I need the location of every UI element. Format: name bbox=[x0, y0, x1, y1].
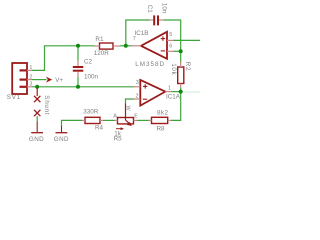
svg-text:R4: R4 bbox=[95, 124, 104, 131]
shunt X mark 2 bbox=[34, 110, 40, 116]
wire R8 left to pot E bbox=[137, 119, 149, 121]
svg-text:1: 1 bbox=[29, 65, 32, 71]
resistor R1 bbox=[95, 43, 121, 49]
capacitor C1 bbox=[150, 15, 164, 25]
wire IC1A output faint to right edge bbox=[183, 91, 200, 93]
junction dot IC1B pin6 node bbox=[179, 49, 183, 53]
resistor R2 bbox=[178, 62, 184, 88]
svg-text:IC1A: IC1A bbox=[166, 93, 181, 100]
resistor R8 bbox=[149, 117, 171, 123]
junction dot shunt tap bbox=[35, 85, 39, 89]
wire V+ branch bbox=[32, 79, 47, 81]
junction dot R1 right feedback bbox=[124, 44, 128, 48]
ground GND2 bbox=[56, 126, 68, 133]
wire IC1B pin6 to junction bbox=[174, 50, 181, 52]
wire R1 right to IC1B output junction bbox=[120, 45, 132, 47]
svg-text:1: 1 bbox=[168, 85, 171, 91]
junction dot C2 top bbox=[76, 44, 80, 48]
svg-text:A: A bbox=[113, 113, 117, 119]
svg-text:Shunt: Shunt bbox=[43, 95, 50, 115]
svg-text:W: W bbox=[125, 106, 131, 112]
shunt jumper red lead bbox=[36, 88, 38, 97]
trimmer R5 bbox=[115, 104, 138, 131]
svg-text:10k: 10k bbox=[170, 63, 177, 75]
wire R2 top segment bbox=[180, 51, 182, 62]
svg-text:R1: R1 bbox=[95, 36, 104, 43]
op-amp IC1A bbox=[134, 80, 172, 106]
wire R4 left to GND2 bbox=[62, 120, 83, 126]
junction dot C2 bottom bbox=[76, 85, 80, 89]
svg-text:3: 3 bbox=[136, 80, 139, 86]
svg-text:2: 2 bbox=[29, 74, 32, 80]
wire junction down to R8 bbox=[171, 92, 181, 121]
svg-text:SV1: SV1 bbox=[7, 94, 21, 101]
op-amp IC1B bbox=[132, 32, 174, 59]
svg-text:C1: C1 bbox=[146, 5, 153, 14]
svg-text:7: 7 bbox=[133, 36, 136, 42]
junction dot IC1A output node bbox=[179, 90, 183, 94]
wire C2 top green bbox=[77, 46, 79, 61]
svg-text:10n: 10n bbox=[161, 3, 168, 14]
svg-text:330R: 330R bbox=[83, 108, 99, 115]
wire pot A to R4 bbox=[103, 119, 115, 121]
wire IC1A output to junction bbox=[172, 91, 181, 93]
svg-text:E: E bbox=[134, 113, 138, 119]
svg-text:C2: C2 bbox=[84, 59, 93, 66]
connector SV1 bbox=[12, 63, 32, 94]
capacitor C2 bbox=[73, 61, 84, 78]
svg-text:2: 2 bbox=[136, 93, 139, 99]
svg-text:100n: 100n bbox=[84, 74, 99, 81]
svg-text:120R: 120R bbox=[94, 50, 110, 57]
wire net N1 pin1 to R1 bbox=[32, 46, 95, 71]
svg-text:GND: GND bbox=[29, 136, 44, 143]
shunt X mark 1 bbox=[34, 96, 40, 102]
svg-text:R8: R8 bbox=[157, 126, 166, 133]
wire C2 bottom green bbox=[77, 77, 79, 87]
svg-text:6: 6 bbox=[169, 44, 172, 50]
svg-text:LM358D: LM358D bbox=[135, 61, 165, 68]
wire feedback loop top with C1 bbox=[126, 20, 150, 46]
svg-text:V+: V+ bbox=[55, 77, 63, 84]
svg-text:GND: GND bbox=[54, 136, 69, 143]
wire R2 bottom segment bbox=[180, 88, 182, 92]
svg-text:3: 3 bbox=[29, 82, 32, 88]
wire shunt upper green bbox=[36, 116, 38, 121]
resistor R4 bbox=[82, 117, 103, 123]
svg-text:R5: R5 bbox=[114, 135, 123, 142]
wire net N3 pin3 to IC1A plus input bbox=[32, 86, 134, 88]
ground GND1 bbox=[31, 122, 43, 133]
supply arrow V+ bbox=[46, 77, 52, 83]
svg-text:R2: R2 bbox=[184, 62, 191, 71]
svg-text:5: 5 bbox=[169, 32, 172, 38]
wire IC1A pin2 to pot wiper bbox=[126, 99, 135, 104]
wire IC1B pin5 to right edge bbox=[174, 39, 201, 41]
svg-text:IC1B: IC1B bbox=[135, 30, 149, 37]
svg-text:8k2: 8k2 bbox=[157, 110, 168, 117]
